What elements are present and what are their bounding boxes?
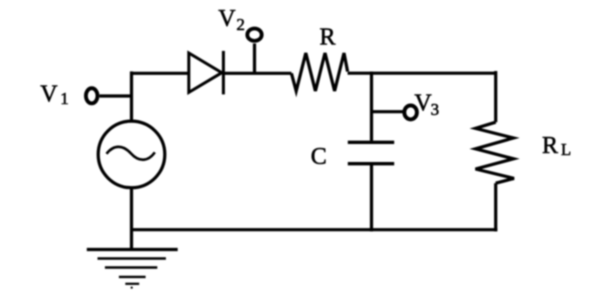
label V2 [218, 6, 245, 34]
svg-text:L: L [561, 140, 571, 159]
node V3 terminal stub [372, 110, 404, 113]
wire: top net, source junction to diode anode [132, 72, 189, 75]
svg-text:2: 2 [236, 15, 245, 34]
node V3 terminal circle [404, 105, 417, 119]
wire: resistor R to top-right corner [348, 72, 496, 75]
label R [320, 24, 336, 50]
wire: capacitor bottom to bottom net [370, 165, 373, 231]
svg-text:R: R [320, 24, 336, 50]
label V3 [414, 91, 439, 119]
wire: RL bottom to bottom net [494, 183, 497, 231]
svg-text:C: C [311, 144, 327, 170]
wire: source bottom to ground [130, 188, 133, 250]
svg-text:3: 3 [431, 100, 440, 119]
node V1 terminal circle [86, 88, 98, 103]
label C [311, 144, 327, 170]
node V1 terminal stub [100, 94, 134, 97]
svg-text:V: V [40, 82, 58, 108]
resistor RL [476, 122, 515, 183]
svg-text:R: R [542, 133, 558, 159]
wire: diode cathode to resistor R [223, 72, 291, 75]
svg-text:V: V [218, 6, 236, 32]
source VS (AC sine source) [98, 121, 165, 188]
node V2 terminal circle [247, 29, 261, 41]
svg-text:1: 1 [60, 89, 69, 108]
diode D [189, 51, 224, 95]
wire: bottom net [132, 228, 498, 231]
node V2 terminal stub [253, 44, 256, 74]
capacitor C top plate [348, 141, 394, 144]
wire: left vertical, top net to source top [130, 71, 133, 119]
label V1 [40, 82, 69, 108]
wire: right vertical, corner to RL top [494, 71, 497, 122]
source sine wave [107, 147, 155, 160]
capacitor C bottom plate [348, 162, 394, 165]
wire: top net vertical junction to capacitor [370, 72, 373, 141]
ground [87, 250, 178, 289]
label RL [542, 133, 571, 159]
resistor R [291, 53, 347, 91]
